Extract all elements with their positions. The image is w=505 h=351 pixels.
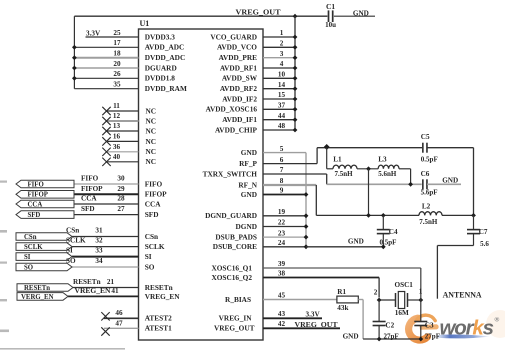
wire R1 to GND row xyxy=(358,300,363,340)
wire left power pin 35 xyxy=(74,88,138,90)
node VREG_OUT junction at right bus xyxy=(293,14,298,19)
svg-text:SCLK: SCLK xyxy=(66,236,86,244)
svg-text:14: 14 xyxy=(278,81,286,89)
svg-text:41: 41 xyxy=(111,287,119,295)
pin number 8 xyxy=(280,177,284,185)
flag text FIFOP xyxy=(28,192,48,199)
svg-text:DVDD1.8: DVDD1.8 xyxy=(145,74,176,83)
svg-text:RESETn: RESETn xyxy=(145,283,173,292)
resistor R1 xyxy=(337,296,358,303)
wire 3.3V to pin 25 xyxy=(86,36,139,38)
wire RESETn flag to pin 21 xyxy=(73,287,139,289)
pin number 39 xyxy=(278,260,286,268)
svg-text:®: ® xyxy=(495,316,500,324)
wire right power pin 2 xyxy=(263,46,295,48)
svg-text:DVDD_ADC: DVDD_ADC xyxy=(145,53,186,62)
svg-text:30: 30 xyxy=(117,175,125,183)
svg-text:SFD: SFD xyxy=(81,205,95,213)
pin number 40 xyxy=(113,153,121,161)
net label CCA 28 xyxy=(81,195,125,203)
svg-text:25: 25 xyxy=(113,29,121,37)
pin number 6 xyxy=(280,156,284,164)
wire pin 24 xyxy=(263,246,306,248)
svg-text:7.5nH: 7.5nH xyxy=(419,218,438,226)
svg-text:RF_N: RF_N xyxy=(238,180,257,189)
wire pin 42 VREG_OUT xyxy=(263,327,340,329)
svg-text:23: 23 xyxy=(278,229,286,237)
svg-text:SI: SI xyxy=(145,252,152,261)
no-connect X pin 16 xyxy=(102,137,110,145)
chip pin name DVDD_ADC xyxy=(145,53,186,62)
C1 designator xyxy=(326,2,335,11)
L2 designator xyxy=(422,203,431,211)
L3 value 5.6nH xyxy=(378,170,397,178)
chip pin name NC xyxy=(146,126,157,135)
svg-text:DVDD_RAM: DVDD_RAM xyxy=(145,84,187,93)
svg-text:XOSC16_Q2: XOSC16_Q2 xyxy=(211,273,252,282)
chip pin name DGND_GUARD xyxy=(205,211,257,220)
wire L1 to L3 xyxy=(357,168,378,170)
flag text SO xyxy=(24,264,33,271)
C1 value 10u xyxy=(325,21,336,29)
wire right power pin 10 xyxy=(263,77,295,79)
svg-text:DGND_GUARD: DGND_GUARD xyxy=(205,211,257,220)
net label CSn 31 xyxy=(66,226,103,234)
wire pin 5 GND xyxy=(263,153,306,247)
node left bus junction y47 xyxy=(72,45,77,50)
wire crystal right lead xyxy=(408,299,421,301)
capacitor C5 xyxy=(423,143,427,153)
svg-text:20: 20 xyxy=(113,60,121,68)
svg-text:AVDD_RF1: AVDD_RF1 xyxy=(220,63,258,72)
svg-text:0.5pF: 0.5pF xyxy=(380,238,397,246)
svg-text:RF_P: RF_P xyxy=(239,159,257,168)
net label 3.3V xyxy=(86,30,101,38)
node L1-L3 junction xyxy=(366,166,371,171)
svg-text:SFD: SFD xyxy=(28,212,41,219)
pin number 42 xyxy=(278,320,286,328)
watermark works text xyxy=(440,317,494,340)
wire GND row bottom xyxy=(363,338,421,340)
svg-text:RESETn: RESETn xyxy=(24,285,50,292)
svg-text:35: 35 xyxy=(113,81,121,89)
C4 value 0.5pF xyxy=(380,238,397,246)
svg-text:SO: SO xyxy=(24,264,33,271)
chip pin name AVDD_RF1 xyxy=(220,63,258,72)
chip pin name AVDD_CHIP xyxy=(215,125,258,134)
svg-text:VREG_OUT: VREG_OUT xyxy=(236,8,281,17)
node L3 to TXRX junction xyxy=(408,182,413,187)
watermark e-works logo swirl xyxy=(409,310,505,340)
node left bus junction y58 xyxy=(72,55,77,60)
node gnd stub junction pin 24 xyxy=(304,244,309,249)
chip pin name RF_P xyxy=(239,159,257,168)
off-page connector flag SFD xyxy=(16,211,74,219)
wire L1L3 junction down to L2 row xyxy=(368,169,370,216)
flag text CSn xyxy=(24,234,37,241)
svg-text:22: 22 xyxy=(278,219,286,227)
wire C6 to GND label xyxy=(427,183,461,185)
wire 3.3V left power bus vertical xyxy=(73,16,75,89)
wire pin 22 xyxy=(263,226,306,228)
svg-text:C7: C7 xyxy=(479,228,488,236)
off-page connector flag FIFOP xyxy=(16,191,74,199)
pin number 2 xyxy=(280,40,284,48)
svg-text:SCLK: SCLK xyxy=(145,242,165,251)
svg-text:SI: SI xyxy=(66,246,73,254)
chip pin name VREG_OUT xyxy=(214,324,255,333)
chip pin name AVDD_ADC xyxy=(145,43,185,52)
node pin 9 gnd junction xyxy=(304,192,309,197)
svg-text:C5: C5 xyxy=(421,133,430,141)
R1 value 43k xyxy=(337,304,348,312)
svg-text:VCO_GUARD: VCO_GUARD xyxy=(210,32,257,41)
net label GND near C4 xyxy=(348,238,364,246)
net label VREG_EN 41 xyxy=(75,287,120,295)
pin number 3 xyxy=(280,50,284,58)
node L2 row junction right xyxy=(471,213,476,218)
pin number 44 xyxy=(278,112,286,120)
svg-text:9: 9 xyxy=(280,187,284,195)
wire SI flag to pin 33 xyxy=(72,256,139,258)
svg-text:40: 40 xyxy=(113,153,121,161)
svg-text:C6: C6 xyxy=(421,170,430,178)
wire pin 23 xyxy=(263,236,306,238)
no-connect X pin 12 xyxy=(102,117,110,125)
chip pin name RF_N xyxy=(238,180,257,189)
svg-text:SO: SO xyxy=(145,262,155,271)
svg-text:DSUB_PADS: DSUB_PADS xyxy=(215,233,257,242)
svg-text:AVDD_CHIP: AVDD_CHIP xyxy=(215,125,258,134)
OSC1 designator xyxy=(395,281,414,289)
wire NC pin 16 xyxy=(108,140,139,142)
node gnd stub junction pin 23 xyxy=(304,235,309,240)
wire SFD flag to pin 27 xyxy=(74,214,139,216)
chip pin name R_BIAS xyxy=(225,295,251,304)
pin number 17 xyxy=(113,39,121,47)
svg-text:AVDD_IF1: AVDD_IF1 xyxy=(222,115,257,124)
C5 designator xyxy=(421,133,430,141)
svg-text:13: 13 xyxy=(113,122,121,130)
pin number 18 xyxy=(113,50,121,58)
chip pin name VREG_IN xyxy=(219,314,253,323)
svg-text:47: 47 xyxy=(115,320,123,328)
svg-text:SFD: SFD xyxy=(145,210,159,219)
svg-text:5.6pF: 5.6pF xyxy=(421,189,438,197)
C6 designator xyxy=(421,170,430,178)
chip pin name TXRX_SWITCH xyxy=(203,169,258,178)
svg-text:42: 42 xyxy=(278,320,286,328)
net label VREG_OUT xyxy=(236,8,281,17)
chip pin name CSn xyxy=(145,232,158,241)
svg-text:DSUB_CORE: DSUB_CORE xyxy=(213,242,257,251)
watermark registered mark xyxy=(495,316,500,324)
chip pin name CCA xyxy=(145,199,162,208)
wire crystal left lead xyxy=(379,299,395,301)
wire SO flag to pin 34 xyxy=(72,266,139,268)
flag text CCA xyxy=(28,201,43,208)
svg-text:FIFOP: FIFOP xyxy=(81,185,103,193)
svg-text:7: 7 xyxy=(280,166,284,174)
chip pin name RESETn xyxy=(145,283,173,292)
net label SI 33 xyxy=(66,246,103,254)
svg-text:GND: GND xyxy=(442,176,458,184)
flag text SFD xyxy=(28,212,41,219)
svg-text:5.6nH: 5.6nH xyxy=(378,170,397,178)
wire pin 19 xyxy=(263,215,306,217)
svg-text:34: 34 xyxy=(95,257,103,265)
svg-text:15: 15 xyxy=(278,91,286,99)
pin number 4 xyxy=(280,60,284,68)
chip pin name NC xyxy=(146,137,157,146)
wire right power pin 48 xyxy=(263,129,295,131)
net label GND at C1 xyxy=(353,9,369,17)
svg-text:48: 48 xyxy=(278,122,286,130)
pin number 9 xyxy=(280,187,284,195)
flag text FIFO xyxy=(28,181,44,188)
wire NC pin 40 xyxy=(108,161,139,163)
chip pin name SO xyxy=(145,262,155,271)
node gnd stub junction pin 22 xyxy=(304,224,309,229)
svg-text:GND: GND xyxy=(241,190,257,199)
node left bus junction y78 xyxy=(72,76,77,81)
off-page connector flag CSn xyxy=(16,233,72,241)
capacitor C2 xyxy=(373,322,386,326)
node RF_P branch junction xyxy=(324,144,330,150)
svg-text:37: 37 xyxy=(278,102,286,110)
svg-text:CSn: CSn xyxy=(24,234,37,241)
chip pin name VCO_GUARD xyxy=(210,32,257,41)
node gnd stub junction pin 19 xyxy=(304,213,309,218)
pin number 46 xyxy=(115,309,123,317)
wire antenna xyxy=(437,246,473,299)
svg-text:VREG_OUT: VREG_OUT xyxy=(214,324,255,333)
pin number 5 xyxy=(280,145,284,153)
wire left power pin 18 xyxy=(74,57,138,59)
svg-text:5.6: 5.6 xyxy=(480,240,489,248)
svg-text:0.5pF: 0.5pF xyxy=(421,155,438,163)
node right bus junction pin 15 xyxy=(293,97,298,102)
svg-text:VREG_OUT: VREG_OUT xyxy=(295,320,338,329)
U1 reference designator xyxy=(140,19,150,28)
wire pin 6 RF_P xyxy=(263,148,422,164)
C3 designator xyxy=(425,322,434,330)
chip pin name XOSC16_Q2 xyxy=(211,273,252,282)
C7 value 5.6 xyxy=(480,240,489,248)
svg-text:18: 18 xyxy=(113,50,121,58)
node right bus junction pin 10 xyxy=(293,76,298,81)
inductor L2 xyxy=(419,212,442,216)
C3 value 27pF xyxy=(425,332,440,340)
svg-text:L1: L1 xyxy=(333,155,342,163)
svg-text:VERG_EN: VERG_EN xyxy=(21,294,54,301)
pin number 22 xyxy=(278,219,286,227)
node right bus junction pin 37 xyxy=(293,107,298,112)
chip pin name AVDD_VCO xyxy=(217,43,257,52)
svg-text:45: 45 xyxy=(278,292,286,300)
pin number 38 xyxy=(278,270,286,278)
wire right power pin 4 xyxy=(263,67,295,69)
wire pin 45 R_BIAS xyxy=(263,299,337,301)
svg-text:1: 1 xyxy=(419,287,423,295)
OSC1 value 16M xyxy=(395,309,409,317)
net label SO 34 xyxy=(66,257,103,265)
wire NC pin 12 xyxy=(108,120,139,122)
svg-text:TXRX_SWITCH: TXRX_SWITCH xyxy=(203,169,258,178)
svg-text:FIFO: FIFO xyxy=(145,179,163,188)
svg-text:2: 2 xyxy=(374,288,378,296)
svg-text:RESETn: RESETn xyxy=(73,278,101,286)
C7 designator xyxy=(479,228,488,236)
svg-text:ATEST1: ATEST1 xyxy=(145,324,172,333)
capacitor C4 xyxy=(377,230,390,234)
wire right power pin 3 xyxy=(263,57,295,59)
pin number 36 xyxy=(113,143,121,151)
wire FIFOP flag to pin 29 xyxy=(74,193,139,195)
svg-text:CCA: CCA xyxy=(28,201,43,208)
svg-text:R1: R1 xyxy=(337,288,346,296)
chip pin name AVDD_XOSC16 xyxy=(206,105,258,114)
svg-text:33: 33 xyxy=(95,246,103,254)
svg-text:1: 1 xyxy=(280,29,284,37)
pin number 16 xyxy=(113,133,121,141)
svg-text:VREG_EN: VREG_EN xyxy=(75,287,112,295)
wire pin 38 XOSC16_Q2 xyxy=(263,278,379,298)
pin number 47 xyxy=(115,320,123,328)
svg-text:AVDD_ADC: AVDD_ADC xyxy=(145,43,185,52)
svg-text:8: 8 xyxy=(280,177,284,185)
pin number 20 xyxy=(113,60,121,68)
off-page connector flag RESETn xyxy=(17,284,73,292)
svg-text:6: 6 xyxy=(280,156,284,164)
svg-text:DGND: DGND xyxy=(236,222,258,231)
chip pin name NC xyxy=(146,157,157,166)
svg-text:16: 16 xyxy=(113,133,121,141)
net label VREG_OUT at pin 42 xyxy=(295,320,338,329)
chip pin name AVDD_IF2 xyxy=(222,94,257,103)
chip pin name FIFOP xyxy=(145,190,167,199)
svg-text:CCA: CCA xyxy=(81,195,97,203)
R1 designator xyxy=(337,288,346,296)
svg-text:10u: 10u xyxy=(325,21,336,29)
chip pin name DVDD3.3 xyxy=(145,32,176,41)
node crystal pin 1 junction xyxy=(418,298,423,303)
wire right power bus vertical xyxy=(294,16,296,130)
off-page connector flag CCA xyxy=(16,200,74,208)
wire C3 column xyxy=(420,298,422,340)
svg-text:GND: GND xyxy=(348,238,364,246)
no-connect X pin 11 xyxy=(102,107,110,115)
svg-text:AVDD_RF2: AVDD_RF2 xyxy=(220,84,258,93)
L1 designator xyxy=(333,155,342,163)
wire CSn flag to pin 31 xyxy=(72,236,139,238)
wire C5 to right vertical xyxy=(427,148,474,216)
chip pin name NC xyxy=(146,106,157,115)
op-amp U1 IC body (CC2420) xyxy=(139,29,264,340)
wire pin 7 TXRX_SWITCH xyxy=(263,174,422,184)
svg-text:38: 38 xyxy=(278,270,286,278)
C4 designator xyxy=(389,228,398,236)
chip pin name FIFO xyxy=(145,179,163,188)
flag text SI xyxy=(24,254,31,261)
svg-text:FIFOP: FIFOP xyxy=(145,190,167,199)
svg-text:L2: L2 xyxy=(422,203,431,211)
svg-text:ATEST2: ATEST2 xyxy=(145,314,172,323)
svg-text:SI: SI xyxy=(24,254,31,261)
svg-text:10: 10 xyxy=(278,71,286,79)
wire right power pin 14 xyxy=(263,88,295,90)
pin number 14 xyxy=(278,81,286,89)
svg-text:2: 2 xyxy=(280,40,284,48)
flag text RESETn xyxy=(24,285,50,292)
pin number 43 xyxy=(278,310,286,318)
pin number 35 xyxy=(113,81,121,89)
wire C2 column xyxy=(378,300,380,339)
wire right power pin 15 xyxy=(263,98,295,100)
inductor L3 xyxy=(378,165,399,169)
svg-text:CSn: CSn xyxy=(66,226,79,234)
off-page connector flag SO xyxy=(16,263,72,271)
C6 value 5.6pF xyxy=(421,189,438,197)
svg-text:VREG_IN: VREG_IN xyxy=(219,314,253,323)
scan artifact marks xyxy=(0,181,125,350)
wire C7 leads xyxy=(473,215,475,245)
wire RF_P branch down to L1 xyxy=(327,148,333,169)
wire C4 leads xyxy=(382,215,384,246)
svg-text:NC: NC xyxy=(146,116,157,125)
svg-text:NC: NC xyxy=(146,137,157,146)
svg-text:ANTENNA: ANTENNA xyxy=(443,290,482,299)
off-page connector flag SCLK xyxy=(16,243,72,251)
svg-text:GND: GND xyxy=(353,9,369,17)
svg-text:NC: NC xyxy=(146,147,157,156)
wire ATEST1 pin 47 xyxy=(104,327,139,329)
svg-text:FIFOP: FIFOP xyxy=(28,192,48,199)
pin number 45 xyxy=(278,292,286,300)
L2 value 7.5nH xyxy=(419,218,438,226)
pin number 1 xyxy=(280,29,284,37)
C2 designator xyxy=(385,322,394,330)
svg-text:C1: C1 xyxy=(326,2,335,11)
svg-text:FIFO: FIFO xyxy=(28,181,44,188)
wire pin 43 VREG_IN 3.3V xyxy=(263,317,322,319)
svg-text:39: 39 xyxy=(278,260,286,268)
flag text VERG_EN xyxy=(21,294,54,301)
wire pin 9 GND xyxy=(263,194,306,196)
net label 3.3V at pin 43 xyxy=(306,311,321,319)
wire right power pin 44 xyxy=(263,119,295,121)
svg-text:43: 43 xyxy=(278,310,286,318)
svg-text:27: 27 xyxy=(117,205,125,213)
pin number 13 xyxy=(113,122,121,130)
svg-text:AVDD_IF2: AVDD_IF2 xyxy=(222,94,257,103)
net label FIFO 30 xyxy=(81,175,125,183)
node L2 row junction at L1L3 drop xyxy=(366,213,371,218)
no-connect X pin 13 xyxy=(102,127,110,135)
svg-text:26: 26 xyxy=(113,70,121,78)
svg-text:11: 11 xyxy=(113,102,120,110)
net label FIFOP 29 xyxy=(81,185,125,193)
svg-text:3.3V: 3.3V xyxy=(306,311,321,319)
off-page connector flag SI xyxy=(16,253,72,261)
svg-text:7.5nH: 7.5nH xyxy=(335,170,354,178)
node crystal pin 2 junction xyxy=(377,298,382,303)
svg-text:29: 29 xyxy=(117,185,125,193)
pin number 25 xyxy=(113,29,121,37)
L1 value 7.5nH xyxy=(335,170,354,178)
svg-text:43k: 43k xyxy=(337,304,348,312)
node left bus junction y68 xyxy=(72,66,77,71)
